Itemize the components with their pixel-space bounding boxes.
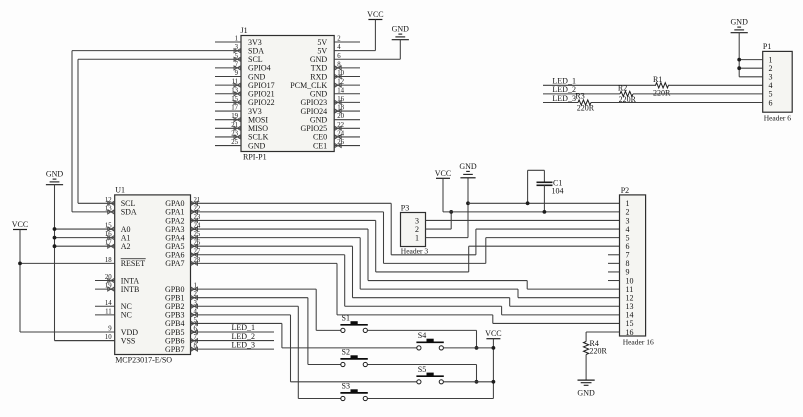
svg-text:R2: R2 (618, 84, 627, 93)
svg-text:GND: GND (459, 162, 477, 171)
wire S3 to VCC vertical (367, 398, 493, 400)
svg-text:17: 17 (231, 105, 238, 112)
wire J1 pin4 to VCC (374, 20, 376, 51)
wire GND to P2 pin1 row (468, 202, 620, 204)
svg-text:S4: S4 (418, 331, 426, 340)
junction VCC-RESET (18, 261, 22, 265)
wire GND to P1 pins 1 2 3 (738, 33, 740, 77)
svg-text:1: 1 (415, 233, 419, 242)
wire S5 to VCC (443, 381, 493, 383)
U1 pin 16 A1 stub (54, 237, 115, 239)
J1 pin 16 GPIO23 stub (334, 101, 360, 103)
wire GPA4 to P2 pin 12 (191, 237, 361, 239)
junction S1-S4 (475, 346, 479, 350)
wire GPA7 to P2 pin 15 (191, 262, 338, 264)
P2 pin 9 stub (608, 271, 620, 273)
resistor R2 220R (620, 91, 633, 96)
J1 pin 5 SCL stub (78, 58, 241, 60)
svg-text:R3: R3 (575, 91, 584, 100)
U1 pin 18 RESET stub (20, 262, 115, 264)
svg-text:S1: S1 (342, 314, 350, 323)
connector P1 Header 6 body (763, 51, 793, 112)
svg-text:S3: S3 (342, 382, 350, 391)
svg-text:20: 20 (337, 113, 344, 120)
junction C1-GND row (526, 201, 530, 205)
junction P3.1-GND row (466, 201, 470, 205)
junction S2-S5 (475, 380, 479, 384)
junction GND-A1 (53, 236, 57, 240)
svg-text:MCP23017-E/SO: MCP23017-E/SO (115, 356, 172, 365)
wire VCC vertical to switch rows (492, 339, 494, 399)
P2 pin 8 stub (608, 262, 620, 264)
U1 pin 20 INTA stub (95, 280, 115, 282)
svg-text:GND: GND (731, 18, 749, 27)
wire GPA6 to P2 pin 14 (191, 254, 345, 256)
resistor R1 220R (656, 83, 669, 88)
connector P3 Header 3 body (401, 213, 426, 247)
junction GND-P1.2 (737, 66, 741, 70)
svg-text:INTB: INTB (121, 285, 140, 294)
svg-text:16: 16 (626, 328, 634, 337)
svg-text:220R: 220R (653, 88, 671, 97)
junction P3.2-VCC (449, 210, 453, 214)
svg-text:220R: 220R (577, 104, 595, 113)
svg-text:6: 6 (769, 98, 773, 107)
svg-text:P3: P3 (401, 204, 409, 213)
svg-text:GND: GND (248, 141, 266, 150)
svg-text:GND: GND (392, 25, 410, 34)
wire GPA3 to P2 pin 11 (191, 228, 369, 230)
U1 pin 10 VSS stub (55, 340, 115, 342)
junction GND-A2 (53, 244, 57, 248)
wire GPB0 to switch S1 (191, 288, 317, 290)
junction C1-VCC row (543, 210, 547, 214)
J1 pin 21 MISO stub (215, 127, 241, 129)
wire GPB2 to switch S3 (191, 305, 299, 307)
J1 pin 4 5V stub (334, 50, 375, 52)
junction VCC-S5 row (492, 380, 496, 384)
svg-text:GPA7: GPA7 (165, 259, 184, 268)
GND symbol below R4 (578, 379, 595, 381)
svg-text:S2: S2 (342, 348, 350, 357)
IC U1 MCP23017-E/SO body (115, 195, 191, 355)
J1 pin 19 MOSI stub (215, 119, 241, 121)
svg-text:2: 2 (337, 36, 341, 43)
wire R4 to GND (585, 355, 587, 381)
J1 pin 2 5V stub (334, 41, 360, 43)
svg-text:VCC: VCC (485, 329, 501, 338)
wire P2 pin16 to R4 (586, 331, 619, 333)
wire GPB1 to switch S2 (191, 297, 308, 299)
wire SDA J1.3 to U1.13 (71, 51, 73, 212)
svg-text:1: 1 (235, 36, 238, 43)
U1 pin 17 A2 stub (54, 245, 115, 247)
svg-text:GPB7: GPB7 (165, 345, 185, 354)
net LED_1 wire at GPB5 (191, 331, 275, 333)
svg-text:CE1: CE1 (313, 141, 327, 150)
U1 pin 14 NC stub (95, 305, 115, 307)
resistor R4 220R (584, 342, 589, 355)
svg-text:18: 18 (105, 257, 112, 264)
J1 pin 3 SDA stub (72, 50, 241, 52)
U1 pin 9 VDD stub (20, 331, 115, 333)
svg-text:NC: NC (121, 311, 132, 320)
U1 pin 15 A0 stub (54, 228, 115, 230)
J1 pin 24 CE0 stub (334, 136, 360, 138)
junction VCC-S4 row (492, 346, 496, 350)
J1 pin 14 GND stub (334, 93, 360, 95)
wire GPB4 to switch S4 (191, 322, 282, 324)
svg-text:GND: GND (46, 170, 64, 179)
wire GPA5 to P2 pin 13 (191, 245, 353, 247)
svg-text:104: 104 (552, 187, 564, 196)
svg-text:6: 6 (337, 53, 341, 60)
J1 pin 7 GPIO4 stub (215, 67, 241, 69)
wire GPA2 to P2 pin 6 (191, 219, 376, 221)
svg-text:VCC: VCC (12, 220, 28, 229)
svg-text:VSS: VSS (121, 336, 136, 345)
J1 pin 26 CE1 stub (334, 145, 360, 147)
wire SCL J1.5 to U1.12 (77, 59, 79, 203)
wire S4 to VCC (443, 347, 493, 349)
wire P3 pin2 to VCC net (426, 228, 452, 230)
capacitor C1 104 (527, 170, 529, 203)
J1 pin 18 GPIO24 stub (334, 110, 360, 112)
svg-text:Header 3: Header 3 (401, 247, 429, 256)
svg-text:10: 10 (105, 334, 112, 341)
J1 pin 22 GPIO25 stub (334, 127, 360, 129)
P2 pin 10 stub (608, 280, 620, 282)
net LED_2 wire to R2 (543, 93, 620, 95)
J1 pin 11 GPIO17 stub (215, 84, 241, 86)
svg-text:9: 9 (235, 70, 239, 77)
svg-text:LED_3: LED_3 (232, 340, 256, 349)
wire GPB3 to switch S5 (191, 314, 291, 316)
J1 pin 1 3V3 stub (215, 41, 241, 43)
svg-text:SDA: SDA (121, 208, 137, 217)
wire R1 to P1 pin4 (668, 84, 763, 86)
U1 pin 19 INTB stub (95, 288, 115, 290)
svg-text:J1: J1 (241, 26, 248, 35)
J1 pin 9 GND stub (215, 76, 241, 78)
svg-text:U1: U1 (115, 185, 125, 194)
resistor R3 220R (578, 100, 591, 105)
svg-text:LED_3: LED_3 (552, 94, 576, 103)
J1 pin 25 GND stub (215, 145, 241, 147)
J1 pin 8 TXD stub (334, 67, 360, 69)
svg-text:GND: GND (577, 389, 595, 398)
wire J1 pin6 to GND (399, 40, 401, 60)
svg-text:220R: 220R (590, 347, 608, 356)
svg-text:4: 4 (337, 44, 341, 51)
net LED_3 wire at GPB7 (191, 348, 275, 350)
connector J1 (RPI-P1) body (241, 36, 334, 152)
J1 pin 20 GND stub (334, 119, 360, 121)
svg-text:R1: R1 (653, 75, 662, 84)
wire VCC to U1 VDD with RESET branch (19, 230, 21, 333)
svg-text:14: 14 (337, 87, 344, 94)
wire VCC to P2 pin2 row (442, 178, 444, 212)
J1 pin 6 GND stub (334, 58, 400, 60)
net LED_1 wire to R1 (543, 84, 656, 86)
wire P3 pin3 to P2 pin3 (426, 219, 620, 221)
svg-text:A2: A2 (121, 242, 131, 251)
svg-text:P1: P1 (763, 42, 771, 51)
P2 pin 7 stub (608, 254, 620, 256)
svg-text:25: 25 (231, 139, 238, 146)
junction GND-P1.1 (737, 58, 741, 62)
svg-text:RESET: RESET (121, 259, 146, 268)
svg-text:RPI-P1: RPI-P1 (243, 153, 267, 162)
svg-text:14: 14 (105, 300, 112, 307)
wire GND to U1 VSS with A0 A1 A2 branches (54, 185, 56, 341)
wire GPA1 to P2 pin 5 (191, 211, 384, 213)
svg-text:Header 6: Header 6 (764, 114, 792, 123)
svg-text:P2: P2 (621, 186, 629, 195)
wire R3 to P1 pin6 (591, 102, 763, 104)
svg-text:S5: S5 (418, 365, 426, 374)
svg-text:9: 9 (108, 326, 112, 333)
wire R2 to P1 pin5 (633, 93, 763, 95)
svg-text:11: 11 (105, 308, 112, 315)
wire GPA0 to P2 pin 4 (191, 202, 392, 204)
J1 pin 10 RXD stub (334, 76, 360, 78)
svg-text:VCC: VCC (367, 10, 383, 19)
J1 pin 15 GPIO22 stub (215, 101, 241, 103)
wire S2 to VCC junction (367, 364, 476, 366)
junction GND-A0 (53, 227, 57, 231)
wire S1 to VCC junction (367, 329, 476, 331)
J1 pin 23 SCLK stub (215, 136, 241, 138)
U1 pin 11 NC stub (95, 314, 115, 316)
wire P3 pin1 to GND net (426, 237, 469, 239)
net LED_2 wire at GPB6 (191, 340, 275, 342)
net LED_3 wire to R3 (543, 102, 578, 104)
connector P2 Header 16 body (620, 195, 646, 336)
J1 pin 12 PCM_CLK stub (334, 84, 360, 86)
svg-text:Header 16: Header 16 (623, 338, 654, 347)
J1 pin 17 3V3 stub (215, 110, 241, 112)
svg-text:VCC: VCC (435, 169, 451, 178)
J1 pin 13 GPIO21 stub (215, 93, 241, 95)
